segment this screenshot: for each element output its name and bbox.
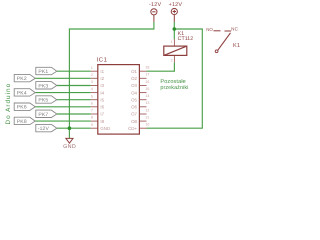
- wire row 8 PK8: [35, 120, 91, 122]
- flag PK8: [14, 117, 35, 125]
- svg-text:GND: GND: [63, 144, 76, 150]
- svg-text:PK3: PK3: [38, 83, 48, 89]
- relay coil K1 body: [164, 46, 187, 55]
- svg-text:PK2: PK2: [17, 76, 27, 82]
- svg-text:2: 2: [91, 73, 93, 77]
- wire row 7 PK7: [57, 113, 91, 115]
- wire row 4 PK4: [35, 92, 91, 94]
- svg-text:PK5: PK5: [38, 98, 48, 104]
- wire coil bottom to IC pin 18: [147, 63, 175, 72]
- IC1 right pin stubs (pins 18-10): [139, 71, 146, 128]
- svg-text:I4: I4: [100, 90, 104, 95]
- svg-text:GND: GND: [100, 126, 110, 131]
- svg-text:CT112: CT112: [178, 36, 194, 42]
- svg-text:O1: O1: [131, 69, 137, 74]
- relay contact K1: armature: [218, 33, 231, 50]
- svg-text:4: 4: [91, 87, 93, 91]
- svg-text:I3: I3: [100, 83, 104, 88]
- svg-text:9: 9: [91, 123, 93, 127]
- svg-text:I5: I5: [100, 97, 104, 102]
- svg-text:5: 5: [91, 94, 93, 98]
- svg-text:6: 6: [91, 101, 93, 105]
- svg-text:I8: I8: [100, 119, 104, 124]
- flag PK3: [36, 82, 57, 90]
- svg-text:12: 12: [145, 108, 149, 112]
- op IC1 body: [98, 65, 140, 135]
- right pin numbers 18-10: [145, 66, 149, 127]
- flag PK1: [36, 67, 57, 75]
- svg-text:IC1: IC1: [97, 56, 108, 63]
- svg-text:15: 15: [145, 87, 149, 91]
- supply +12V symbol: [171, 8, 177, 21]
- svg-text:Pozostałe: Pozostałe: [160, 79, 186, 85]
- svg-text:I6: I6: [100, 105, 104, 110]
- supply -12V symbol: [151, 9, 157, 22]
- svg-text:przekaźniki: przekaźniki: [160, 85, 188, 91]
- svg-text:I1: I1: [100, 69, 104, 74]
- svg-text:14: 14: [145, 94, 149, 98]
- svg-text:PK6: PK6: [17, 105, 27, 111]
- relay coil K1 pin stubs: [173, 39, 175, 62]
- junction dot at -12V row 9: [68, 126, 72, 130]
- svg-text:3: 3: [91, 80, 93, 84]
- svg-text:11: 11: [145, 116, 149, 120]
- svg-text:O5: O5: [131, 97, 137, 102]
- flag -12V (row 9): [36, 124, 57, 132]
- svg-text:O3: O3: [131, 83, 137, 88]
- svg-text:2: 2: [171, 59, 173, 63]
- flag PK7: [36, 110, 57, 118]
- flag PK6: [14, 103, 35, 111]
- wire row 5 PK5: [57, 99, 91, 101]
- flag PK2: [14, 74, 35, 82]
- svg-text:I7: I7: [100, 112, 104, 117]
- wire row 3 PK3: [57, 85, 91, 87]
- svg-text:O6: O6: [131, 105, 137, 110]
- IC1 right pin names O1-O8, CD+: [128, 69, 137, 131]
- svg-text:1: 1: [91, 66, 93, 70]
- wire -12V net: supply stub, top horizontal, long vertical down left side: [69, 22, 153, 139]
- svg-text:I2: I2: [100, 76, 104, 81]
- wire row 2 PK2: [35, 77, 91, 79]
- svg-text:O8: O8: [131, 119, 137, 124]
- svg-text:-12V: -12V: [38, 126, 50, 132]
- svg-text:CD+: CD+: [128, 126, 137, 131]
- svg-text:PK8: PK8: [17, 119, 27, 125]
- wire row 6 PK6: [35, 106, 91, 108]
- svg-text:NC: NC: [231, 27, 239, 32]
- svg-text:+12V: +12V: [169, 2, 183, 8]
- svg-text:PK4: PK4: [17, 90, 27, 96]
- svg-text:NO: NO: [206, 27, 213, 32]
- flag PK5: [36, 96, 57, 104]
- wire row 1 PK1: [57, 70, 91, 72]
- svg-text:O4: O4: [131, 90, 137, 95]
- wire row 9 -12V to GND pin: [57, 127, 91, 129]
- flag PK4: [14, 89, 35, 97]
- relay contact K1: common pivot circle: [215, 50, 218, 53]
- svg-text:O7: O7: [131, 112, 137, 117]
- IC1 left pin stubs (pins 1-9): [91, 71, 98, 128]
- wire +12V net: supply to coil top and branch right/down to pin 10: [147, 22, 203, 128]
- ground symbol: [66, 138, 73, 143]
- relay contact K1: NC fixed contact: [225, 30, 232, 32]
- IC1 left pin names I1-I8, GND: [100, 69, 110, 131]
- svg-text:1: 1: [171, 40, 173, 44]
- svg-text:K1: K1: [233, 43, 240, 49]
- svg-text:16: 16: [145, 80, 149, 84]
- svg-text:10: 10: [145, 123, 149, 127]
- svg-text:PK7: PK7: [38, 112, 48, 118]
- svg-text:13: 13: [145, 101, 149, 105]
- svg-text:7: 7: [91, 109, 93, 113]
- svg-text:-12V: -12V: [149, 2, 162, 8]
- svg-text:17: 17: [145, 73, 149, 77]
- svg-text:8: 8: [91, 116, 93, 120]
- junction dot at +12V rail: [173, 27, 177, 31]
- svg-text:Do Arduino: Do Arduino: [5, 83, 12, 125]
- svg-text:PK1: PK1: [38, 69, 48, 75]
- svg-text:O2: O2: [131, 76, 137, 81]
- left pin numbers 1-9: [91, 66, 93, 127]
- relay contact K1: NO fixed contact: [214, 30, 221, 32]
- svg-text:18: 18: [145, 66, 149, 70]
